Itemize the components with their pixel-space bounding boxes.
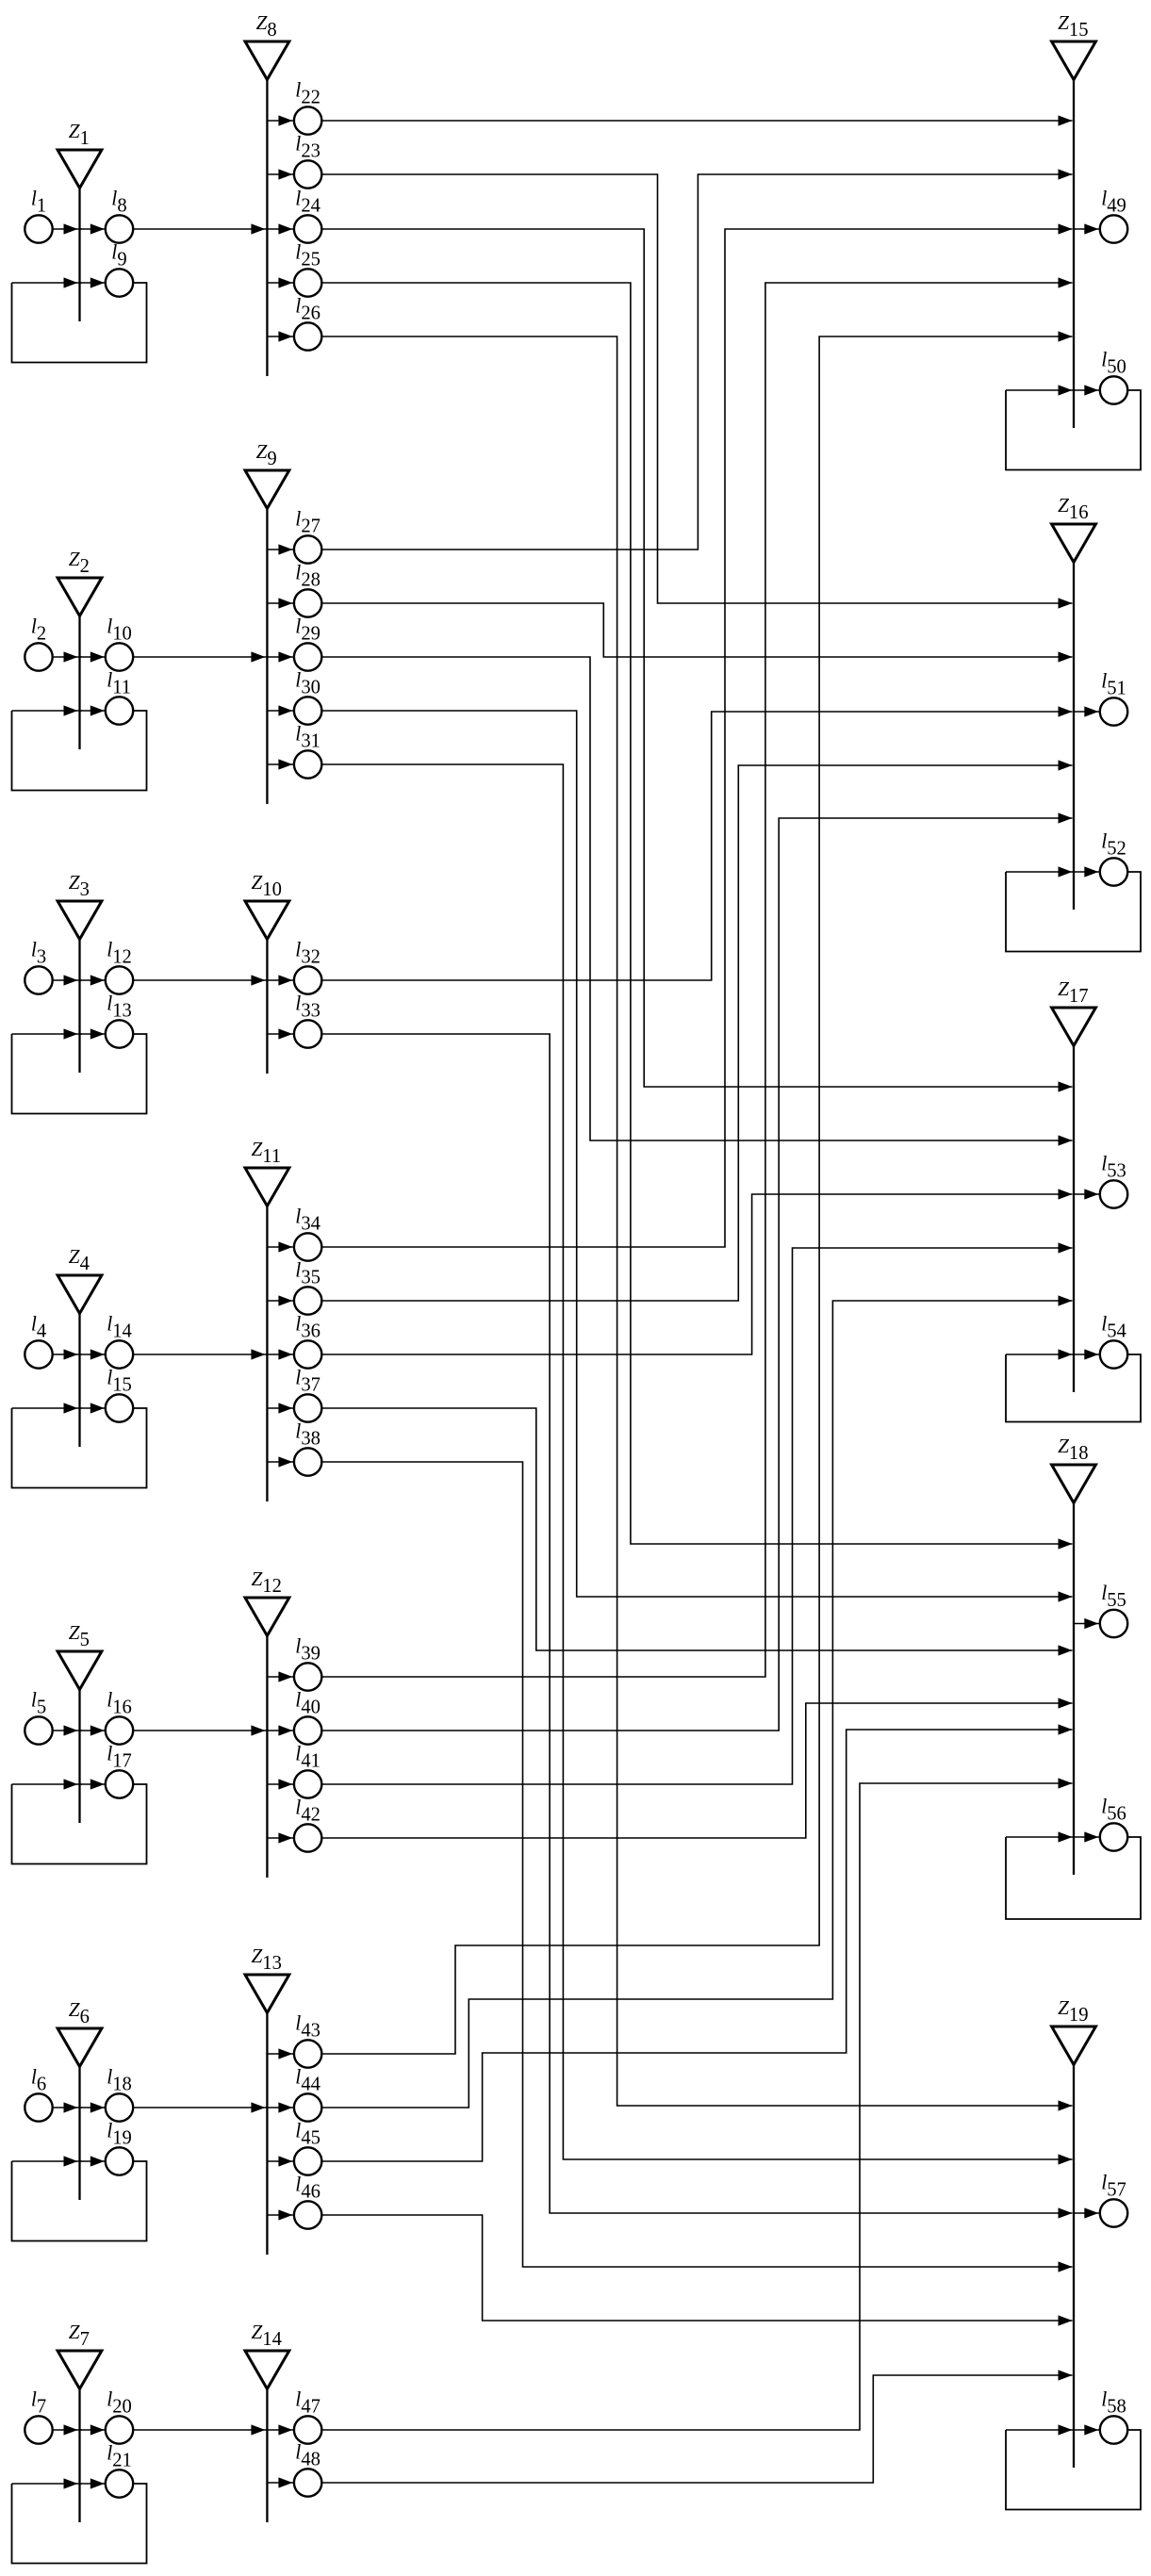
- svg-text:l15: l15: [107, 1367, 132, 1396]
- svg-text:l51: l51: [1101, 670, 1126, 699]
- svg-text:l30: l30: [295, 669, 321, 698]
- svg-text:l25: l25: [295, 241, 321, 271]
- svg-text:l11: l11: [107, 669, 131, 698]
- svg-text:Z6: Z6: [69, 1998, 90, 2027]
- svg-text:l53: l53: [1101, 1153, 1126, 1182]
- svg-text:l22: l22: [295, 79, 321, 108]
- svg-text:l52: l52: [1101, 830, 1126, 860]
- svg-text:l32: l32: [295, 939, 321, 968]
- svg-text:l41: l41: [295, 1743, 321, 1772]
- svg-text:l27: l27: [295, 508, 321, 537]
- svg-text:l58: l58: [1101, 2388, 1126, 2418]
- svg-text:l49: l49: [1101, 188, 1126, 217]
- svg-text:l20: l20: [107, 2388, 132, 2418]
- svg-text:l54: l54: [1101, 1313, 1126, 1342]
- svg-text:Z12: Z12: [252, 1567, 282, 1597]
- svg-text:Z16: Z16: [1058, 494, 1088, 523]
- svg-text:Z19: Z19: [1058, 1996, 1088, 2026]
- svg-text:Z2: Z2: [69, 548, 90, 577]
- svg-text:l33: l33: [295, 993, 321, 1022]
- svg-text:Z5: Z5: [69, 1621, 90, 1650]
- svg-text:l4: l4: [31, 1313, 46, 1342]
- svg-text:l16: l16: [107, 1689, 132, 1718]
- svg-text:l5: l5: [31, 1689, 46, 1718]
- svg-text:l26: l26: [295, 295, 321, 324]
- svg-text:l12: l12: [107, 939, 132, 968]
- svg-text:l48: l48: [295, 2441, 321, 2470]
- svg-text:l47: l47: [295, 2388, 321, 2418]
- svg-text:l57: l57: [1101, 2172, 1126, 2201]
- svg-text:l31: l31: [295, 723, 321, 752]
- svg-text:l10: l10: [107, 615, 132, 645]
- svg-text:l29: l29: [295, 615, 321, 645]
- svg-text:Z18: Z18: [1058, 1435, 1088, 1464]
- svg-text:Z14: Z14: [252, 2321, 282, 2350]
- svg-text:l40: l40: [295, 1689, 321, 1718]
- svg-text:Z9: Z9: [256, 440, 277, 469]
- svg-text:l24: l24: [295, 188, 321, 217]
- svg-text:l18: l18: [107, 2066, 132, 2095]
- svg-text:Z7: Z7: [69, 2321, 90, 2350]
- svg-text:l2: l2: [31, 615, 46, 645]
- svg-text:Z15: Z15: [1058, 11, 1088, 41]
- svg-text:l34: l34: [295, 1206, 321, 1235]
- svg-text:l7: l7: [31, 2388, 46, 2418]
- svg-text:l37: l37: [295, 1367, 321, 1396]
- svg-text:l50: l50: [1101, 349, 1126, 378]
- svg-text:l3: l3: [31, 939, 46, 968]
- svg-text:l28: l28: [295, 562, 321, 591]
- svg-text:l38: l38: [295, 1420, 321, 1450]
- svg-text:l44: l44: [295, 2066, 321, 2095]
- svg-text:Z11: Z11: [252, 1138, 282, 1167]
- svg-text:l21: l21: [107, 2442, 132, 2471]
- svg-text:l9: l9: [111, 241, 126, 271]
- svg-text:l56: l56: [1101, 1796, 1126, 1825]
- svg-text:l43: l43: [295, 2012, 321, 2042]
- svg-text:l23: l23: [295, 133, 321, 162]
- svg-text:l8: l8: [111, 188, 126, 217]
- svg-text:l14: l14: [107, 1313, 132, 1342]
- svg-text:l17: l17: [107, 1743, 132, 1772]
- svg-text:Z1: Z1: [69, 120, 90, 149]
- svg-text:Z13: Z13: [252, 1944, 282, 1974]
- svg-text:l45: l45: [295, 2120, 321, 2149]
- svg-text:l6: l6: [31, 2066, 46, 2095]
- svg-text:l35: l35: [295, 1259, 321, 1288]
- svg-text:l36: l36: [295, 1313, 321, 1342]
- svg-text:l46: l46: [295, 2174, 321, 2203]
- svg-text:l13: l13: [107, 993, 132, 1022]
- svg-text:l19: l19: [107, 2120, 132, 2149]
- svg-text:l55: l55: [1101, 1582, 1126, 1611]
- svg-text:Z8: Z8: [256, 11, 277, 41]
- svg-text:Z3: Z3: [69, 871, 90, 900]
- svg-text:l1: l1: [31, 188, 46, 217]
- svg-text:Z10: Z10: [252, 871, 282, 900]
- svg-text:l39: l39: [295, 1635, 321, 1665]
- svg-text:l42: l42: [295, 1797, 321, 1826]
- svg-text:Z4: Z4: [69, 1245, 90, 1274]
- svg-text:Z17: Z17: [1058, 977, 1088, 1007]
